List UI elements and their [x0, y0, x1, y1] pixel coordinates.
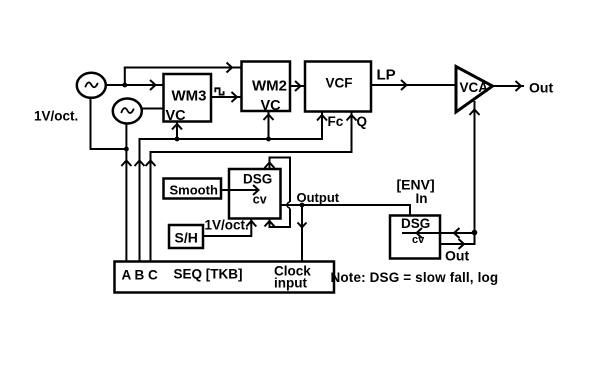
arrow into Q [347, 115, 357, 121]
arrow out [516, 81, 522, 91]
square wave glyph [215, 88, 223, 94]
wire S/H to DSG bottom [203, 219, 251, 237]
box DSG (mid) [229, 169, 281, 219]
svg-text:Output: Output [297, 190, 340, 205]
wire Smooth to DSG cv [221, 189, 258, 191]
arrow up C [146, 161, 156, 167]
arrow mid wire [401, 80, 407, 90]
svg-text:In: In [416, 191, 428, 206]
svg-text:VC: VC [261, 98, 282, 114]
svg-text:LP: LP [377, 67, 396, 84]
wire SEQ A up to VCO2 [125, 124, 127, 263]
wire DSG right Out [440, 243, 476, 245]
svg-text:Out: Out [445, 248, 469, 264]
node output junction [300, 203, 305, 208]
arrow up into DSG bottom (S/H) [246, 221, 256, 227]
box S/H [169, 225, 203, 248]
wire DSG output to ENV In [281, 205, 411, 216]
svg-text:Q: Q [357, 114, 368, 129]
arrow up into DSG bottom [265, 221, 275, 227]
wire VCA out [493, 85, 525, 87]
arrow left mid wire [454, 228, 460, 238]
wire WM2 to VCF [290, 85, 305, 87]
svg-text:Note: DSG = slow fall, log: Note: DSG = slow fall, log [331, 270, 499, 285]
arrow into VCF [295, 81, 301, 91]
oscillator VCO2 [113, 99, 142, 124]
arrow up into VCA [470, 110, 480, 116]
wire VCO2 to WM3 [142, 108, 164, 110]
svg-text:VCF: VCF [326, 76, 353, 91]
arrow into WM2 [227, 63, 233, 73]
box WM2 [242, 62, 291, 115]
node WM3 VC tap [175, 137, 180, 142]
wire feedback down and into DSG bottom [270, 209, 291, 228]
svg-text:DSG: DSG [401, 216, 430, 231]
arrow left inside box [417, 228, 423, 238]
node junction on VCO1 wire [122, 83, 127, 88]
wire VCO1 to WM3 [106, 84, 164, 86]
box DSG (right) [390, 216, 440, 259]
svg-text:Smooth: Smooth [170, 183, 218, 198]
arrow down clock [298, 223, 307, 228]
wire up to WM2 VC [268, 111, 270, 139]
arrow up B [135, 161, 145, 167]
wire up to VCA control [474, 101, 476, 245]
svg-text:cv: cv [253, 193, 267, 207]
wire VCO1 down to node [91, 98, 127, 150]
oscillator VCO1 [77, 73, 106, 98]
arrow into cv [253, 185, 259, 195]
wire up to VCF Q [351, 112, 353, 153]
arrow into WM3 [150, 80, 156, 90]
svg-text:WM3: WM3 [172, 88, 207, 105]
arrow up A [121, 161, 131, 167]
svg-text:VC: VC [166, 108, 187, 124]
arrow into Fc [317, 115, 327, 121]
box Smooth [164, 179, 222, 199]
arrow into WM2 lower [232, 92, 238, 102]
wire SEQ C vertical [150, 151, 152, 262]
svg-text:DSG: DSG [243, 172, 272, 187]
svg-text:Out: Out [529, 80, 553, 96]
wire C horizontal bus [150, 151, 352, 153]
wire down to SEQ clock [301, 205, 303, 262]
wire SEQ B vertical [139, 138, 141, 262]
svg-text:input: input [274, 276, 307, 291]
box VCF [305, 62, 371, 112]
arrow into WM2 VC [264, 115, 274, 121]
box WM3 [164, 74, 212, 124]
box SEQ (TKB) [115, 262, 335, 293]
svg-text:A B C: A B C [122, 268, 158, 283]
node cv/out junction [472, 230, 478, 236]
wire cv feedback into DSG right [402, 232, 475, 234]
wire B horizontal bus [139, 138, 323, 140]
svg-text:Fc: Fc [328, 114, 344, 129]
svg-text:1V/oct.: 1V/oct. [205, 218, 249, 233]
op-amp VCA triangle [456, 67, 493, 113]
svg-text:S/H: S/H [175, 230, 198, 246]
wire WM3 to WM2 [211, 96, 242, 98]
arrow up out of DSG top [265, 163, 275, 169]
node WM2 VC tap [266, 137, 271, 142]
svg-text:1V/oct.: 1V/oct. [34, 109, 78, 124]
wire VCF to VCA [371, 84, 456, 86]
wire up to WM3 VC [176, 122, 178, 140]
wire DSG top feedback loop [270, 158, 291, 203]
wire up to VCF Fc [321, 112, 323, 140]
svg-text:SEQ [TKB]: SEQ [TKB] [174, 267, 243, 282]
arrow into WM3 VC [172, 124, 182, 130]
wire junction up [124, 68, 126, 86]
node junction A/pitch [124, 147, 129, 152]
svg-text:VCA: VCA [460, 80, 489, 95]
svg-text:WM2: WM2 [252, 78, 287, 95]
wire hop over output line [287, 202, 290, 208]
wire top line to WM2 [124, 67, 242, 69]
arrow right on Out wire [459, 239, 465, 249]
